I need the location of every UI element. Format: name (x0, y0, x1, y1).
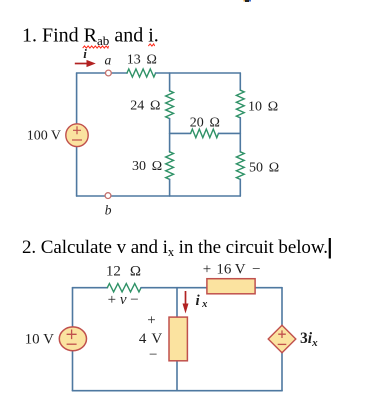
svg-text:20 Ω: 20 Ω (190, 116, 220, 131)
text cursor (329, 238, 331, 259)
wire: left vertical (circuit 1) (76, 73, 78, 196)
resistor 30ohm zigzag (vertical) (166, 152, 174, 180)
svg-text:b: b (105, 203, 112, 218)
voltage source 10V circle (59, 327, 86, 351)
svg-text:a: a (105, 53, 112, 68)
svg-text:+: + (147, 312, 155, 328)
resistor R 13ohm zigzag (127, 69, 156, 77)
wire: bottom horizontal (77, 195, 241, 197)
resistor 24ohm zigzag (vertical) (166, 91, 174, 119)
wire: top horizontal left segment (73, 287, 108, 289)
resistor 50ohm zigzag (vertical) (236, 152, 244, 180)
svg-text:+ v −: + v − (108, 292, 139, 308)
voltage source 100V circle (66, 124, 88, 147)
wire: left vertical (circuit 2) (72, 288, 74, 391)
wire: bottom horizontal (circuit 2) (73, 390, 283, 392)
svg-text:−: − (149, 347, 157, 363)
svg-text:24 Ω: 24 Ω (130, 98, 160, 113)
svg-text:12 Ω: 12 Ω (106, 264, 141, 280)
element 16V rectangle (207, 279, 255, 294)
svg-text:13 Ω: 13 Ω (127, 52, 157, 67)
resistor 12ohm zigzag (107, 284, 141, 292)
cropped text fragment top edge (244, 0, 252, 2)
dependent source diamond 3ix (268, 325, 296, 353)
wire: middle branch center (169, 119, 171, 152)
wire: middle branch upper (176, 288, 178, 317)
svg-text:3ix: 3ix (300, 330, 318, 349)
svg-text:1. Find Rab and i.: 1. Find Rab and i. (22, 25, 159, 48)
wire: right vertical middle (239, 118, 241, 152)
wire: 20ohm branch right stub (219, 132, 241, 134)
wire: middle branch lower (169, 179, 171, 196)
svg-text:30 Ω: 30 Ω (132, 159, 162, 174)
wire: middle branch lower (176, 361, 178, 391)
current arrow i (red) (75, 60, 96, 67)
svg-text:10 V: 10 V (25, 332, 54, 348)
svg-text:100 V: 100 V (27, 129, 61, 144)
spellcheck squiggle under i (148, 44, 154, 46)
wire: right vertical upper (239, 73, 241, 90)
svg-text:2. Calculate v and ix in the c: 2. Calculate v and ix in the circuit bel… (22, 237, 328, 259)
current arrow ix (red, down) (183, 291, 189, 314)
node b (terminal circle) (105, 193, 111, 199)
resistor 10ohm zigzag (vertical) (236, 90, 244, 118)
wire: top horizontal middle segment (141, 287, 282, 289)
wire: 20ohm branch left stub (170, 132, 191, 134)
svg-text:4 V: 4 V (139, 331, 162, 347)
element 4V rectangle (169, 317, 187, 361)
svg-text:10 Ω: 10 Ω (248, 100, 278, 115)
node a (terminal circle) (106, 70, 112, 76)
spellcheck squiggle under Rab (83, 46, 109, 48)
wire: middle branch upper (169, 73, 171, 91)
svg-text:50 Ω: 50 Ω (249, 161, 279, 176)
svg-text:i: i (83, 46, 87, 61)
wire: right vertical lower (239, 179, 241, 196)
svg-text:+ 16 V −: + 16 V − (203, 261, 261, 277)
wire: right vertical (circuit 2) (281, 288, 283, 391)
wire: top horizontal right segment (156, 72, 241, 74)
svg-text:ix: ix (196, 293, 208, 310)
wire: top horizontal left segment (77, 72, 128, 74)
resistor 20ohm zigzag (horizontal) (191, 129, 219, 138)
